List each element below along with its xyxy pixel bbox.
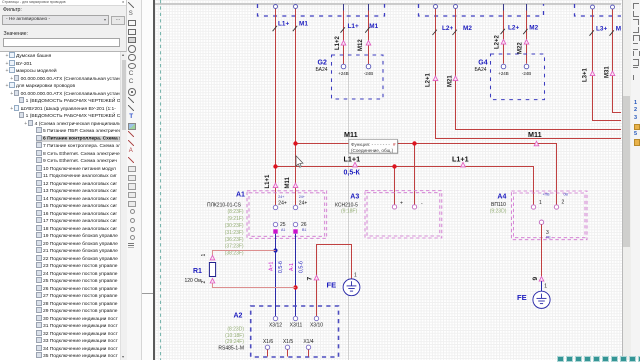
G4 pin -24V — [524, 64, 529, 69]
svg-text:A2: A2 — [234, 312, 243, 319]
svg-text:7: 7 — [306, 277, 313, 281]
power supply unit A4 box — [511, 191, 587, 240]
A2 pin X3/10 circle — [314, 316, 318, 320]
svg-text:0,5-б: 0,5-б — [299, 261, 305, 273]
svg-text:L2+2: L2+2 — [494, 34, 500, 49]
svg-text:24+: 24+ — [299, 201, 308, 207]
triangle on M11 bus (right) — [534, 141, 539, 146]
dark wire tip 2 — [368, 4, 370, 11]
svg-text:БА24: БА24 — [316, 67, 328, 73]
junction dot blue on A wire — [273, 248, 277, 252]
svg-text:1: 1 — [354, 272, 357, 278]
svg-text:#: # — [393, 142, 396, 147]
triangle L3+1 — [590, 71, 595, 76]
G2 pin +24V — [341, 64, 346, 69]
svg-text:M11: M11 — [285, 176, 291, 188]
page break slash on M1 — [293, 26, 297, 31]
triangle M31 — [610, 71, 615, 76]
svg-text:M2: M2 — [463, 25, 472, 32]
wire L2+1: vertical + corner right — [436, 9, 622, 139]
triangle M21 — [453, 76, 458, 81]
svg-text:1: 1 — [201, 254, 207, 257]
A2 pin X1/4 circle — [306, 345, 310, 349]
wire M31: vertical + corner right — [613, 9, 622, 113]
triangle R1 pin1 — [210, 255, 215, 260]
junction dot M11 left — [293, 141, 297, 145]
svg-text:L3+: L3+ — [596, 26, 607, 33]
svg-text:(31:23F): (31:23F) — [225, 230, 244, 236]
svg-text:FE: FE — [517, 293, 527, 302]
wire triangle to FE symbol — [541, 281, 543, 291]
drawing frame dashed teal border — [160, 0, 162, 360]
junction dot A3 minus — [412, 141, 416, 145]
slash L2+ G4 — [501, 29, 505, 34]
A1 pin 24+ circle (1) — [273, 205, 277, 209]
svg-text:(29:24F): (29:24F) — [225, 339, 244, 345]
svg-text:24+: 24+ — [278, 195, 284, 199]
svg-text:G2: G2 — [318, 59, 327, 66]
svg-text:G4: G4 — [478, 59, 487, 66]
page top edge line — [155, 3, 621, 5]
svg-text:(37:23F): (37:23F) — [225, 244, 244, 250]
svg-text:+24В: +24В — [498, 71, 508, 76]
interface module A2 box — [251, 306, 339, 357]
surge filter A3 box — [365, 191, 442, 238]
triangle L2+1 — [433, 76, 438, 81]
pin circle box1-1 — [274, 5, 278, 9]
svg-text:А-1: А-1 — [289, 263, 295, 271]
slash L1+ G2 — [341, 27, 345, 32]
svg-text:L1+1: L1+1 — [452, 155, 469, 164]
pin circle box1-2 — [294, 5, 298, 9]
wire RS485 A down — [275, 234, 277, 317]
svg-text:A4: A4 — [497, 194, 506, 201]
svg-text:+24В: +24В — [338, 71, 348, 76]
junction dot A3 plus — [392, 164, 396, 168]
svg-text:M22: M22 — [517, 42, 523, 54]
junction dot L1+1 left — [273, 164, 277, 168]
A3 pin + circle — [392, 205, 396, 209]
slash L3+ — [590, 30, 594, 35]
svg-text:X3/11: X3/11 — [290, 322, 303, 328]
svg-text:(8:23F): (8:23F) — [227, 209, 243, 215]
svg-text:X1/6: X1/6 — [263, 339, 274, 345]
svg-text:120 Ом: 120 Ом — [185, 278, 203, 284]
triangle R1 pin2 — [210, 278, 215, 283]
svg-text:L1+2: L1+2 — [335, 35, 341, 50]
A1 pin 26 circle — [293, 222, 297, 226]
svg-text:-24В: -24В — [364, 71, 373, 76]
svg-text:M12: M12 — [358, 39, 364, 51]
dark tip 4 — [526, 4, 528, 11]
slash M3 — [610, 30, 614, 35]
wire X1/6 down — [267, 350, 269, 357]
triangle on L1+ wire — [273, 183, 278, 188]
wire RS485 B down — [295, 234, 297, 317]
svg-text:M2: M2 — [529, 25, 538, 32]
svg-text:1: 1 — [539, 200, 542, 206]
wire A4 pin3 to ground — [541, 224, 543, 276]
A4 pin 1 circle — [531, 205, 535, 209]
svg-text:M: M — [616, 26, 621, 33]
svg-text:X1/5: X1/5 — [283, 339, 294, 345]
slash M2 G4 — [523, 29, 527, 34]
A1 pin 24+ circle (2) — [293, 205, 297, 209]
triangle L2+2 — [501, 40, 506, 45]
junction dot red on B wire — [293, 285, 297, 289]
wire X1/5 down — [287, 350, 289, 357]
svg-text:(30:23F): (30:23F) — [225, 223, 244, 229]
svg-text:А+1: А+1 — [269, 262, 275, 271]
svg-text:L2+: L2+ — [508, 25, 519, 32]
svg-text:L3+1: L3+1 — [582, 67, 588, 82]
A2 pin X3/11 circle — [293, 316, 297, 320]
svg-text:(Соединение, общ.): (Соединение, общ.) — [351, 148, 394, 153]
wire A3 minus to M11 — [414, 144, 416, 205]
svg-text:L1+1: L1+1 — [265, 174, 271, 189]
svg-text:(38:23F): (38:23F) — [225, 251, 244, 257]
A4 pin 3 circle — [539, 220, 543, 224]
triangle L1+2 — [341, 41, 346, 46]
svg-text:(8:23D): (8:23D) — [227, 327, 244, 333]
svg-text:X1/4: X1/4 — [303, 339, 314, 345]
slash M2 — [453, 30, 457, 35]
svg-text:M1: M1 — [369, 23, 378, 30]
wire L1+ vertical to A1 pin 24+ — [275, 9, 277, 206]
svg-text:(10:18F): (10:18F) — [225, 333, 244, 339]
svg-text:(9:21F): (9:21F) — [227, 216, 243, 222]
pin circle box3-1 — [591, 5, 595, 9]
svg-text:(9:23D): (9:23D) — [490, 208, 507, 214]
svg-text:0,5-б: 0,5-б — [278, 261, 284, 273]
svg-text:L1+: L1+ — [348, 23, 359, 30]
svg-text:Функция: - - - - - - -: Функция: - - - - - - - — [351, 142, 390, 147]
A2 pin X3/12 circle — [273, 316, 277, 320]
wire net7 X3/10 to FE — [317, 245, 352, 317]
wire A3 plus to L1+1 — [394, 167, 396, 205]
svg-text:M21: M21 — [447, 75, 453, 87]
G4 pin +24V — [501, 64, 506, 69]
svg-text:M31: M31 — [604, 66, 610, 78]
A1 RS485 square pin A — [273, 229, 277, 233]
triangle on wire 7 — [314, 275, 319, 280]
svg-text:X3/12: X3/12 — [269, 322, 282, 328]
wire X1/4 down — [308, 350, 310, 357]
svg-text:+: + — [400, 200, 403, 206]
ground symbol FE (left) — [343, 279, 360, 296]
wire M12 to G2 -24 — [368, 4, 370, 64]
svg-text:2: 2 — [562, 200, 565, 206]
A3 pin - circle — [412, 205, 416, 209]
page vertical boundary — [348, 4, 350, 360]
triangle M12 — [366, 41, 371, 46]
svg-text:FE: FE — [327, 281, 337, 290]
A2 pin X1/6 circle — [265, 345, 269, 349]
svg-text:R1: R1 — [193, 268, 202, 275]
wire M1 vertical to A1 pin 24- — [295, 9, 297, 206]
pin circle box3-2 — [611, 5, 615, 9]
triangle M22 — [524, 40, 529, 45]
pin circle box2-1 — [434, 5, 438, 9]
svg-text:ПЛК210-01-CS: ПЛК210-01-CS — [207, 202, 242, 208]
A4 pin 2 circle — [554, 205, 558, 209]
resistor R1 body — [209, 263, 215, 277]
A1 pin 25 circle — [273, 222, 277, 226]
wire R1 bottom to B wire — [213, 283, 296, 288]
svg-text:0,5-К: 0,5-К — [344, 170, 361, 177]
svg-text:2: 2 — [201, 281, 207, 284]
svg-text:L2+1: L2+1 — [425, 72, 431, 87]
power supply G2 box — [332, 55, 384, 99]
svg-text:M11: M11 — [528, 130, 542, 139]
wire L3+1: vertical + corner right — [593, 9, 622, 121]
dark tip 3 — [503, 4, 505, 11]
svg-text:24+: 24+ — [299, 195, 305, 199]
svg-text:A3: A3 — [350, 193, 359, 200]
svg-text:-: - — [421, 200, 423, 206]
svg-text:L1+1: L1+1 — [344, 155, 361, 164]
ground symbol FE (right) — [533, 291, 550, 308]
triangle on L1+1 bus (left) — [353, 162, 358, 167]
triangle on M1 wire — [293, 183, 298, 188]
top terminal box (right) — [575, 4, 622, 16]
dark wire tip 1 — [343, 4, 345, 11]
svg-text:0В: 0В — [564, 192, 569, 196]
top terminal box (middle) — [419, 4, 544, 16]
svg-text:M1: M1 — [299, 20, 308, 27]
triangle on PE wire — [539, 277, 544, 282]
power supply G4 box — [491, 54, 545, 100]
svg-text:БА24: БА24 — [475, 67, 487, 73]
svg-text:(9:18F): (9:18F) — [341, 209, 357, 215]
wire M21: vertical + corner right — [456, 9, 622, 130]
A1 RS485 square pin B — [293, 229, 297, 233]
svg-text:КСН210-5: КСН210-5 — [335, 202, 358, 208]
svg-text:1: 1 — [544, 284, 547, 290]
A2 pin X1/5 circle — [285, 345, 289, 349]
svg-text:ВП110: ВП110 — [491, 202, 506, 208]
svg-text:+ПВ: +ПВ — [543, 192, 551, 196]
wire R1 top to A wire — [213, 251, 276, 260]
svg-text:L1+: L1+ — [278, 20, 289, 27]
mouse cursor — [296, 156, 303, 168]
svg-text:A1: A1 — [236, 191, 245, 198]
wire L2+2 to G4 — [503, 4, 505, 64]
svg-text:(36:23F): (36:23F) — [225, 237, 244, 243]
slash M1 G2 — [365, 27, 369, 32]
top terminal box (left) bottom edge — [258, 4, 385, 16]
G2 pin -24V — [366, 64, 371, 69]
wire M22 to G4 — [526, 4, 528, 64]
slash L2+ — [433, 30, 437, 35]
svg-text:PE: PE — [546, 235, 551, 239]
svg-text:X3/10: X3/10 — [310, 322, 323, 328]
controller A1 box — [247, 191, 327, 239]
svg-text:RS485-1-M: RS485-1-M — [218, 345, 244, 351]
bus L1+1 horizontal — [276, 167, 534, 205]
bus M11 horizontal — [296, 144, 557, 205]
wire L1+2 to G2 +24 — [343, 4, 345, 64]
svg-text:-24В: -24В — [522, 71, 531, 76]
triangle on L1+1 bus (right) — [461, 162, 466, 167]
svg-text:9: 9 — [532, 277, 539, 281]
page break slash on L1+ — [273, 26, 277, 31]
svg-text:M11: M11 — [344, 130, 358, 139]
svg-text:A1: A1 — [281, 228, 285, 232]
pin circle box2-2 — [454, 5, 458, 9]
svg-text:L2+: L2+ — [442, 25, 453, 32]
svg-text:B1: B1 — [302, 228, 306, 232]
tooltip Функция / Соединение — [349, 139, 398, 153]
svg-text:24+: 24+ — [278, 201, 287, 207]
